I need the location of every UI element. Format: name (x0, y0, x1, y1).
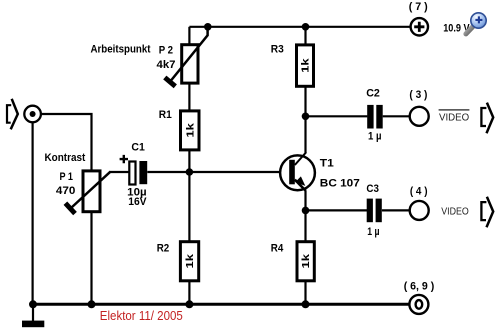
label 16V (128, 196, 147, 208)
svg-text:R1: R1 (159, 109, 172, 121)
capacitor C1 (129, 161, 147, 185)
svg-text:1 µ: 1 µ (368, 130, 382, 142)
terminal (4) (410, 201, 429, 220)
label Kontrast (45, 152, 86, 164)
label 10u (127, 187, 146, 199)
label VIDEO (441, 206, 469, 218)
ground (22, 304, 44, 327)
label BC 107 (320, 178, 360, 190)
wire P1 to rail (90, 212, 92, 305)
wire C2 to terminal (383, 115, 410, 117)
wire top supply rail (189, 26, 410, 28)
output arrow video 4 (481, 197, 493, 228)
svg-text:VIDEO: VIDEO (439, 111, 469, 123)
input connector (24, 106, 41, 123)
svg-text:1k: 1k (185, 123, 196, 138)
wire P2 top (188, 27, 190, 46)
label R3 (271, 43, 284, 55)
wire to C2 (306, 115, 368, 117)
svg-text:C2: C2 (366, 87, 380, 99)
svg-text:1k: 1k (301, 58, 312, 73)
label (7) (409, 1, 428, 13)
label R2 (157, 242, 170, 254)
wire R4 to rail (304, 281, 306, 305)
svg-text:C1: C1 (131, 142, 144, 154)
svg-text:Kontrast: Kontrast (45, 152, 86, 164)
resistor R1 (181, 111, 200, 150)
label T1 (320, 158, 334, 170)
svg-text:( 7 ): ( 7 ) (409, 1, 428, 13)
node rail R4 (302, 300, 310, 308)
resistor R2 (180, 242, 198, 281)
label R1 (159, 109, 172, 121)
label 1u C3 (367, 226, 379, 238)
terminal (6,9) (409, 295, 428, 314)
label (3) (409, 89, 427, 101)
label Elektor 11/2005 (100, 309, 183, 323)
svg-text:1 µ: 1 µ (367, 226, 379, 238)
label 4k7 (157, 59, 176, 71)
capacitor C2 (367, 105, 382, 129)
label C1 (131, 142, 144, 154)
node rail input (29, 300, 37, 308)
node rail P1 (88, 300, 96, 308)
wire ground rail (33, 303, 410, 306)
wire input down (31, 122, 33, 304)
node C3 junction (302, 207, 310, 215)
svg-text:Arbeitspunkt: Arbeitspunkt (91, 44, 151, 56)
potentiometer P1 (65, 171, 110, 214)
svg-text:BC 107: BC 107 (320, 178, 360, 190)
output arrow video 3 (481, 103, 493, 134)
resistor R4 (297, 242, 314, 281)
svg-text:Elektor 11/ 2005: Elektor 11/ 2005 (100, 309, 183, 323)
wire to C3 (306, 209, 368, 211)
svg-text:P 1: P 1 (60, 171, 74, 183)
label plus C1 (120, 155, 128, 163)
svg-text:( 3 ): ( 3 ) (409, 89, 427, 101)
label C2 (366, 87, 380, 99)
svg-text:R2: R2 (157, 242, 170, 254)
terminal (3) (410, 107, 429, 126)
wire P2 to R1 (188, 83, 190, 111)
svg-text:16V: 16V (128, 196, 147, 208)
svg-text:R4: R4 (271, 242, 284, 254)
label P2 (159, 45, 173, 57)
wire R2 to rail (188, 281, 190, 305)
label Arbeitspunkt (91, 44, 151, 56)
transistor T1 (280, 152, 315, 191)
node C2 junction (302, 113, 310, 121)
svg-text:4k7: 4k7 (157, 59, 176, 71)
svg-text:( 6, 9 ): ( 6, 9 ) (404, 280, 435, 292)
label (6,9) (404, 280, 435, 292)
svg-text:1k: 1k (301, 253, 312, 268)
wire C3 to terminal (382, 209, 410, 211)
node base junction (186, 168, 194, 176)
wire base (147, 171, 280, 173)
label (4) (410, 185, 428, 197)
label R4 (271, 242, 284, 254)
svg-text:( 4 ): ( 4 ) (410, 185, 428, 197)
resistor R3 (297, 45, 314, 86)
label P1 (60, 171, 74, 183)
magnifier icon (466, 13, 486, 34)
svg-text:VIDEO: VIDEO (441, 206, 469, 218)
svg-text:1k: 1k (185, 253, 196, 268)
wire emitter down (304, 191, 306, 243)
node rail R2 (185, 300, 193, 308)
label 10.9V (443, 22, 470, 34)
label C3 (366, 183, 379, 195)
node R3 rail (302, 23, 310, 31)
capacitor C3 (367, 199, 382, 223)
label VIDEO inverted (439, 110, 470, 124)
label 470 (56, 185, 76, 197)
input arrow (7, 99, 18, 130)
label 1u C2 (368, 130, 382, 142)
svg-text:R3: R3 (271, 43, 284, 55)
svg-text:P 2: P 2 (159, 45, 173, 57)
wire input to P1 top (41, 114, 92, 172)
wire R3 to collector (304, 86, 306, 152)
svg-text:470: 470 (56, 185, 76, 197)
potentiometer P2 (165, 27, 208, 87)
wire P1 wiper to C1 (110, 171, 130, 173)
wire R3 top (304, 27, 306, 46)
wire R1 to node (188, 150, 190, 172)
terminal (7) (411, 18, 428, 35)
svg-text:C3: C3 (366, 183, 379, 195)
wire node to R2 (188, 172, 190, 242)
svg-text:T1: T1 (320, 158, 334, 170)
node wiper P2 junction (204, 23, 212, 31)
